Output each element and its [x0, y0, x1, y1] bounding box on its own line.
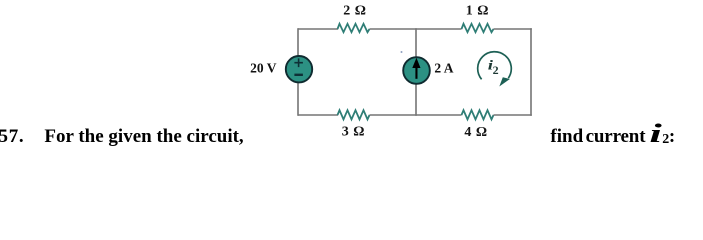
voltage source V1 circle — [286, 56, 312, 82]
svg-text:57.: 57. — [0, 126, 24, 147]
svg-text:4 Ω: 4 Ω — [464, 125, 487, 140]
wire left branch lower — [297, 82, 299, 116]
svg-text:For the given the circuit,: For the given the circuit, — [44, 126, 244, 147]
svg-text:2 Ω: 2 Ω — [343, 4, 366, 19]
wire middle branch lower — [415, 83, 417, 116]
resistor R3 3Ω zigzag — [338, 110, 370, 119]
svg-text:3 Ω: 3 Ω — [342, 125, 365, 140]
wire middle branch upper — [415, 28, 417, 58]
wire right branch vertical — [530, 28, 532, 116]
wire top rail left segment — [298, 28, 338, 30]
svg-text:2 A: 2 A — [434, 60, 453, 75]
current source I1 arrow — [412, 58, 420, 79]
mesh current i2 loop arrowhead — [499, 77, 510, 86]
resistor R2 1Ω zigzag — [462, 24, 494, 32]
svg-text:2: 2 — [493, 63, 499, 77]
svg-text:i: i — [649, 119, 661, 148]
voltage source V1 minus sign — [294, 74, 303, 76]
wire top rail middle segment — [370, 28, 462, 30]
stray ink dot — [401, 51, 403, 53]
resistor R4 4Ω zigzag — [462, 110, 494, 119]
svg-text:1 Ω: 1 Ω — [466, 4, 489, 19]
wire top rail right segment — [494, 28, 532, 30]
wire bottom rail left segment — [298, 114, 338, 116]
wire left branch upper — [297, 28, 299, 57]
voltage source V1 plus sign — [294, 58, 303, 67]
svg-text:20 V: 20 V — [250, 60, 277, 75]
resistor R1 2Ω zigzag — [338, 24, 370, 32]
wire bottom rail middle segment — [370, 114, 462, 116]
wire bottom rail right segment — [494, 114, 532, 116]
mesh current i2 loop arc — [478, 52, 512, 80]
current source I1 circle — [403, 57, 430, 84]
